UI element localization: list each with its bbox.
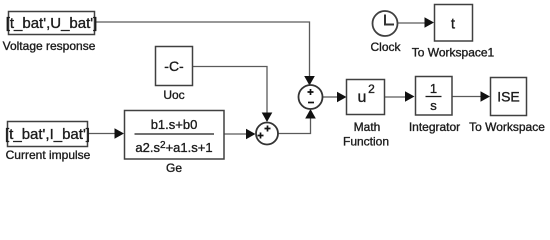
svg-text:Uoc: Uoc [163,88,184,102]
svg-text:Math: Math [354,120,381,134]
svg-text:Function: Function [343,135,389,149]
svg-text:ISE: ISE [497,89,520,105]
svg-text:a2.s2+a1.s+1: a2.s2+a1.s+1 [135,140,212,155]
svg-text:-C-: -C- [164,58,184,74]
svg-text:Integrator: Integrator [409,120,460,134]
svg-text:b1.s+b0: b1.s+b0 [151,117,198,132]
svg-text:Current impulse: Current impulse [6,148,91,162]
svg-text:[t_bat',I_bat']: [t_bat',I_bat'] [5,126,90,143]
svg-text:1: 1 [430,81,437,96]
svg-text:2: 2 [368,82,375,96]
svg-text:To Workspace: To Workspace [469,120,545,134]
svg-text:Voltage response: Voltage response [3,39,96,53]
svg-text:Clock: Clock [370,40,401,54]
svg-text:u: u [358,89,367,106]
svg-text:Ge: Ge [166,161,182,175]
svg-text:To Workspace1: To Workspace1 [412,46,495,60]
svg-text:s: s [430,98,437,113]
svg-text:[t_bat',U_bat']: [t_bat',U_bat'] [6,15,98,32]
